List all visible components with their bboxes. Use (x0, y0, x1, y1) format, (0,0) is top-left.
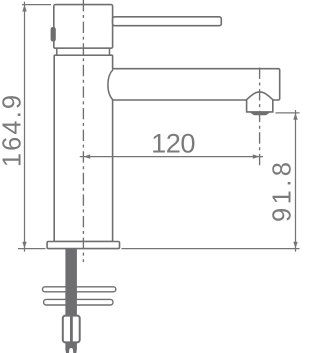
dimension 164.9 arrow up (22, 5, 26, 12)
aerator outlet screen (251, 113, 269, 115)
dimension 164.9 extension line top (22, 4, 51, 6)
lever handle (113, 17, 222, 26)
base plate (47, 242, 119, 249)
faucet head block (54, 5, 113, 49)
svg-text:164.9: 164.9 (0, 93, 27, 167)
threaded rod through washers (65, 286, 77, 307)
dimension 120 arrow left (83, 154, 90, 158)
centerline faucet axis (82, 0, 84, 262)
wire spout body intersection curve (108, 70, 113, 100)
body top edge (54, 54, 112, 56)
dimension 164.9 line (24, 2, 26, 252)
dimension 91.8 line (295, 110, 297, 252)
hex nut (63, 316, 80, 343)
aerator M2 (247, 92, 273, 112)
svg-text:120: 120 (151, 128, 195, 159)
dimension 91.8 arrow up (293, 113, 297, 120)
dimension 120 line (80, 156, 263, 158)
dimension 164.9 extension line bottom (18, 248, 46, 250)
centerline aerator axis (259, 68, 261, 167)
washer 1 (43, 287, 116, 292)
collar ring under head (57, 48, 110, 55)
threaded rod fork end (65, 342, 77, 353)
dimension 91.8 extension line top (276, 112, 300, 114)
hex nut facet line (70, 316, 73, 342)
dimension 120 arrow right (253, 154, 260, 158)
dimension 91.8 extension line bottom (121, 248, 299, 250)
dimension 91.8 arrow down (293, 242, 297, 249)
threaded rod (65, 249, 77, 344)
svg-text:91.8: 91.8 (269, 159, 297, 222)
wire faucet body and spout outline (54, 55, 280, 241)
dimension 164.9 arrow down (22, 242, 26, 249)
temperature limiter knob (51, 27, 56, 42)
washer 2 (44, 299, 113, 305)
